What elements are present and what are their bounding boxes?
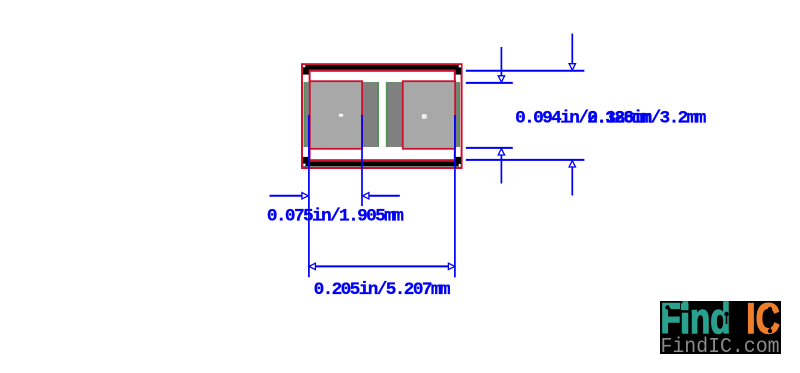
silkscreen corner block top-left xyxy=(303,65,309,75)
logo circuit dot on F xyxy=(665,305,669,309)
pad 2 paste (light gray, red outline) xyxy=(403,81,455,149)
svg-text:FindIC.com: FindIC.com xyxy=(661,336,780,359)
logo circuit dots on C xyxy=(768,307,772,311)
arrow down to pad top line xyxy=(500,47,502,76)
dim line pad top (2.388mm) xyxy=(466,82,513,84)
extension line pad1 right edge xyxy=(361,115,363,206)
dim 0.075in leader right xyxy=(369,195,400,197)
pad 2 copper green left edge xyxy=(386,82,388,147)
pin 1 label xyxy=(339,114,343,117)
outer courtyard rectangle (red) xyxy=(302,64,462,168)
dim 0.205in line xyxy=(309,265,455,267)
silkscreen corner block bottom-left xyxy=(303,157,309,167)
extension line pad1 left edge xyxy=(308,115,310,277)
silkscreen top bar (black) xyxy=(303,65,461,70)
logo letter i blocky stem xyxy=(682,313,688,333)
arrow up to body bottom line xyxy=(569,161,575,167)
dim 0.075in arrowhead left-pointing xyxy=(363,193,369,199)
pad 1 copper green right edge xyxy=(377,82,379,147)
arrow down to body top line xyxy=(571,34,573,64)
dim 0.075in leader left xyxy=(270,195,303,197)
white notch top-right xyxy=(459,65,461,67)
pad 1 copper green left edge xyxy=(303,82,305,147)
dim line body top (3.2mm) xyxy=(466,70,585,72)
pad 2 copper green top edge (muted) xyxy=(386,82,460,84)
dim 0.205in arrowhead left-pointing xyxy=(309,263,315,269)
pad 1 paste (light gray, red outline) xyxy=(310,81,362,149)
white notch bottom-right xyxy=(459,164,461,167)
pad 2 copper (dark gray) xyxy=(386,82,460,147)
logo circuit dot on d xyxy=(724,312,728,316)
pad 1 copper green top edge (muted) xyxy=(304,82,380,84)
extension line pad2 right edge xyxy=(454,115,456,277)
dim 0.205in arrowhead right-pointing xyxy=(448,263,454,269)
FindIC logo background xyxy=(660,301,781,354)
dim line pad bottom (2.388mm) xyxy=(466,147,513,149)
white notch bottom-left xyxy=(303,164,305,166)
pin 2 label xyxy=(422,114,427,119)
silkscreen corner block top-right xyxy=(455,65,461,75)
logo circuit dot on n xyxy=(698,325,702,329)
svg-text:0.126in/3.2mm: 0.126in/3.2mm xyxy=(587,108,706,128)
logo letter i tittle gap xyxy=(681,310,689,313)
dim 0.075in arrowhead right-pointing xyxy=(302,193,308,199)
svg-text:0.075in/1.905mm: 0.075in/1.905mm xyxy=(267,206,404,226)
pad 1 copper (dark gray) xyxy=(304,82,380,147)
logo letter i blocky tittle xyxy=(681,303,689,310)
arrow up to pad bottom line xyxy=(498,149,504,155)
dim line body bottom (3.2mm) xyxy=(466,159,585,161)
svg-text:0.205in/5.207mm: 0.205in/5.207mm xyxy=(314,280,451,300)
silkscreen bottom bar (black) xyxy=(303,161,461,166)
assembly outline rectangle (red) xyxy=(310,71,455,160)
pad 2 copper green right edge xyxy=(458,82,460,147)
white notch top-left xyxy=(303,65,305,67)
silkscreen corner block bottom-right xyxy=(455,157,461,167)
